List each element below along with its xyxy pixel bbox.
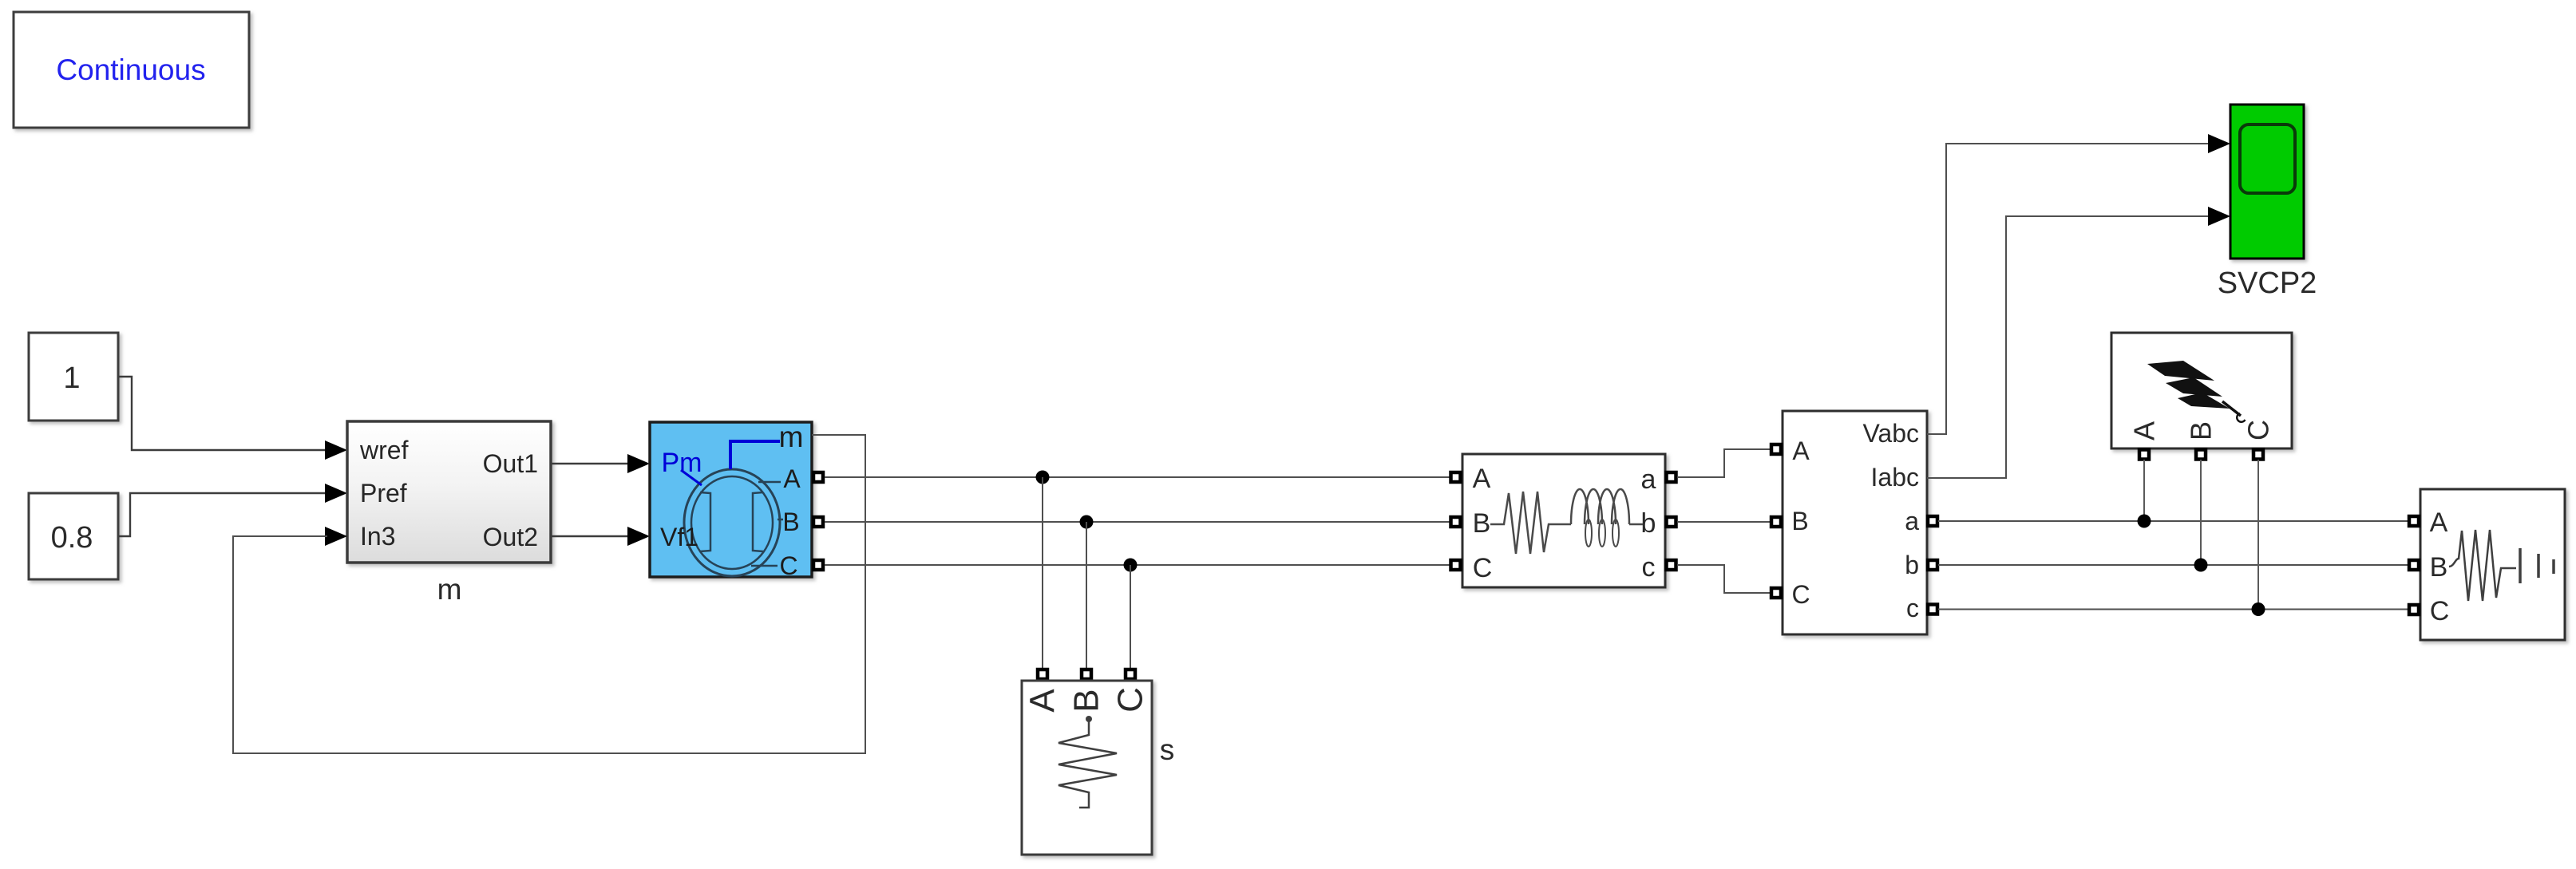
transformer port square b bbox=[1667, 517, 1676, 527]
three-phase load block s bbox=[1022, 681, 1152, 855]
svg-text:1: 1 bbox=[63, 361, 80, 395]
machine icon right bracket bbox=[753, 492, 763, 551]
svg-text:C: C bbox=[2430, 596, 2450, 626]
constant block "0.8" bbox=[29, 493, 118, 579]
wire phase B machine to transformer bbox=[825, 521, 1450, 523]
wire phase b measurement to load bbox=[1938, 564, 2408, 566]
svg-text:c: c bbox=[1642, 552, 1656, 583]
wire transformer a to measurement A bbox=[1677, 449, 1771, 477]
transformer port square B bbox=[1451, 517, 1461, 527]
svg-text:m: m bbox=[437, 573, 462, 606]
arrowhead scope input 1 bbox=[2208, 134, 2230, 153]
svg-text:0.8: 0.8 bbox=[51, 521, 93, 555]
junction node b bbox=[2194, 559, 2208, 572]
arrowhead Vf1 bbox=[627, 527, 650, 546]
transformer port square c bbox=[1667, 560, 1676, 570]
svg-text:A: A bbox=[1792, 436, 1810, 465]
svg-text:C: C bbox=[2242, 420, 2275, 440]
svg-text:A: A bbox=[2128, 421, 2161, 440]
source bar 3 bbox=[2552, 559, 2555, 574]
svg-text:s: s bbox=[1160, 733, 1175, 766]
machine icon left bracket bbox=[700, 492, 710, 551]
measurement port square b bbox=[1928, 560, 1937, 570]
transformer port square A bbox=[1451, 472, 1461, 482]
svg-text:c: c bbox=[1906, 594, 1919, 622]
svg-text:a: a bbox=[1905, 507, 1919, 535]
arrowhead In3 bbox=[325, 527, 347, 546]
transformer inductor L bbox=[1571, 489, 1629, 524]
arrowhead scope input 2 bbox=[2208, 207, 2230, 226]
svg-text:C: C bbox=[779, 551, 797, 580]
machine C leader bbox=[751, 565, 778, 567]
wire transformer b to measurement B bbox=[1677, 521, 1771, 523]
svg-text:Pm: Pm bbox=[662, 448, 702, 478]
machine port square C bbox=[813, 560, 823, 570]
wire fault B to node b bbox=[2200, 460, 2202, 565]
junction node B bbox=[1080, 515, 1094, 529]
load s port square A bbox=[1038, 670, 1047, 679]
fault port square C bbox=[2254, 450, 2263, 460]
svg-text:Vf1: Vf1 bbox=[660, 523, 698, 551]
constant block "1" bbox=[29, 333, 118, 421]
svg-text:Pref: Pref bbox=[360, 479, 407, 508]
scope screen bbox=[2240, 124, 2295, 193]
wire transformer c to measurement C bbox=[1677, 565, 1771, 593]
measurement port square B bbox=[1771, 517, 1781, 527]
svg-text:a: a bbox=[1641, 464, 1656, 495]
svg-text:Iabc: Iabc bbox=[1871, 463, 1919, 492]
svg-text:b: b bbox=[1905, 551, 1919, 579]
source port square B bbox=[2409, 560, 2419, 570]
machine port square B bbox=[813, 517, 823, 527]
svg-text:B: B bbox=[782, 508, 799, 536]
arrowhead Pm bbox=[627, 454, 650, 473]
wire constant 0.8 to Pref bbox=[118, 493, 329, 536]
svg-text:A: A bbox=[2430, 508, 2448, 538]
machine icon outer circle bbox=[684, 469, 780, 576]
load s resistor icon bbox=[1086, 716, 1092, 722]
svg-text:Continuous: Continuous bbox=[56, 53, 205, 86]
svg-text:Out2: Out2 bbox=[483, 523, 538, 551]
arrowhead wref bbox=[325, 440, 347, 460]
arrowhead Pref bbox=[325, 484, 347, 503]
wire node B to load s bbox=[1086, 522, 1087, 669]
svg-text:C: C bbox=[1111, 687, 1150, 713]
wire phase a measurement to load bbox=[1938, 520, 2408, 522]
three-phase V-I measurement block bbox=[1783, 411, 1927, 634]
wire Out1 to Pm bbox=[551, 463, 630, 464]
wire node A to load s bbox=[1042, 477, 1043, 669]
fault lightning bolt bbox=[2147, 361, 2214, 381]
wire Iabc to scope bbox=[1927, 216, 2213, 478]
svg-text:m: m bbox=[779, 421, 804, 453]
three-phase source block right bbox=[2420, 489, 2565, 640]
source resistor icon bbox=[2449, 530, 2516, 601]
fault port square A bbox=[2139, 450, 2149, 460]
load s port square B bbox=[1082, 670, 1091, 679]
measurement port square A bbox=[1771, 444, 1781, 454]
source bar 2 bbox=[2537, 554, 2540, 578]
transformer resistor R bbox=[1490, 492, 1571, 554]
machine port square A bbox=[813, 472, 823, 482]
svg-text:wref: wref bbox=[359, 436, 409, 464]
scope block SVCP2 bbox=[2230, 105, 2304, 259]
wire fault C to node c bbox=[2257, 460, 2259, 610]
source port square C bbox=[2409, 605, 2419, 614]
wire phase C machine to transformer bbox=[825, 564, 1450, 566]
machine icon inner circle bbox=[691, 476, 773, 569]
measurement port square C bbox=[1771, 588, 1781, 598]
machine B leader bbox=[778, 519, 783, 521]
svg-text:C: C bbox=[1791, 580, 1810, 609]
source port square A bbox=[2409, 516, 2419, 526]
subsystem block m bbox=[347, 421, 551, 563]
svg-text:C: C bbox=[1473, 553, 1493, 583]
svg-text:Out1: Out1 bbox=[483, 449, 538, 478]
transformer port square C bbox=[1451, 560, 1461, 570]
wire node C to load s bbox=[1130, 565, 1131, 669]
machine Pm leader line (blue) bbox=[681, 470, 702, 485]
transformer port square a bbox=[1667, 472, 1676, 482]
junction node A bbox=[1036, 471, 1050, 484]
fault port square B bbox=[2196, 450, 2206, 460]
wire Vabc to scope bbox=[1927, 144, 2213, 434]
source bar 1 bbox=[2519, 548, 2522, 583]
junction node c bbox=[2252, 602, 2265, 616]
load s port square C bbox=[1126, 670, 1135, 679]
svg-text:B: B bbox=[1067, 689, 1106, 712]
wire m feedback to In3 bbox=[233, 435, 865, 753]
svg-text:A: A bbox=[1023, 689, 1062, 713]
junction node a bbox=[2138, 515, 2151, 528]
three-phase transformer block bbox=[1462, 454, 1665, 587]
synchronous machine block bbox=[650, 422, 812, 577]
wire phase A machine to transformer bbox=[825, 476, 1450, 478]
wire constant 1 to wref bbox=[118, 377, 329, 450]
svg-text:b: b bbox=[1641, 508, 1656, 539]
machine A leader bbox=[758, 481, 781, 484]
svg-text:B: B bbox=[2430, 552, 2448, 583]
measurement port square c bbox=[1928, 605, 1937, 614]
svg-text:SVCP2: SVCP2 bbox=[2218, 267, 2317, 300]
wire fault A to node a bbox=[2143, 460, 2145, 521]
svg-text:In3: In3 bbox=[360, 522, 395, 551]
svg-text:B: B bbox=[2185, 421, 2218, 440]
svg-text:A: A bbox=[1473, 464, 1491, 494]
powergui block "Continuous" bbox=[14, 12, 249, 128]
svg-text:Vabc: Vabc bbox=[1862, 419, 1919, 448]
three-phase fault block bbox=[2111, 333, 2292, 448]
junction node C bbox=[1124, 559, 1138, 572]
machine m leader line (blue elbow) bbox=[730, 441, 780, 469]
measurement port square a bbox=[1928, 516, 1937, 526]
wire phase c measurement to load bbox=[1938, 609, 2408, 610]
svg-text:B: B bbox=[1473, 508, 1491, 539]
svg-text:A: A bbox=[783, 464, 801, 493]
svg-text:B: B bbox=[1791, 507, 1808, 535]
wire Out2 to Vf1 bbox=[551, 535, 630, 537]
